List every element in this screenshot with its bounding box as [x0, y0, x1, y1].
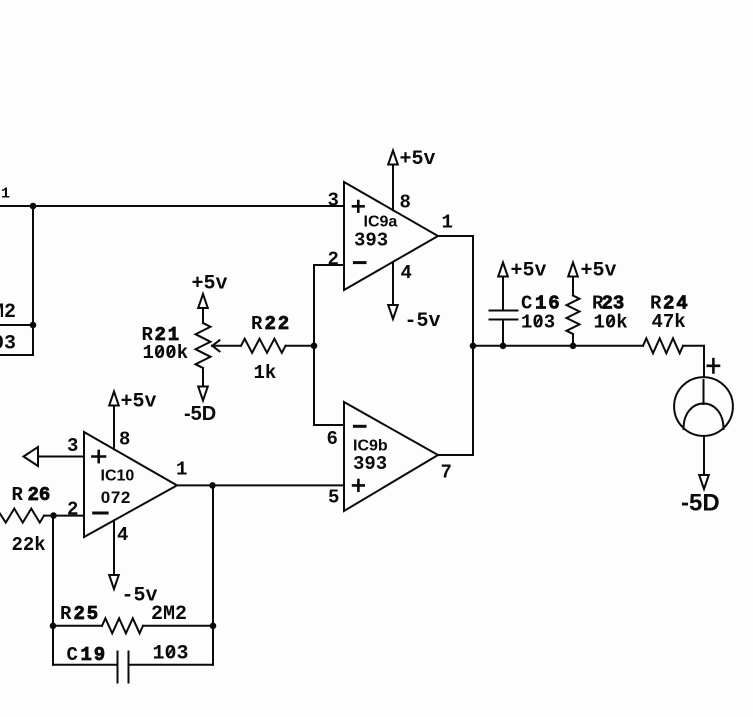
svg-text:-5v: -5v — [405, 310, 441, 333]
svg-text:22k: 22k — [12, 534, 46, 556]
svg-text:+5v: +5v — [581, 260, 617, 283]
svg-text:2M2: 2M2 — [0, 301, 16, 324]
svg-text:47k: 47k — [652, 311, 686, 333]
svg-text:+5v: +5v — [121, 391, 157, 414]
svg-text:393: 393 — [353, 453, 387, 475]
svg-text:IC10: IC10 — [101, 468, 135, 485]
svg-text:4: 4 — [401, 262, 412, 284]
svg-text:393: 393 — [354, 230, 388, 252]
svg-text:+5v: +5v — [511, 260, 547, 283]
svg-text:8: 8 — [119, 429, 130, 451]
svg-text:6: 6 — [327, 428, 338, 450]
svg-text:2: 2 — [328, 249, 339, 271]
svg-text:072: 072 — [101, 488, 131, 507]
svg-text:-5D: -5D — [184, 403, 216, 425]
svg-text:103: 103 — [153, 643, 189, 666]
svg-text:2M2: 2M2 — [151, 603, 187, 626]
svg-text:IC9a: IC9a — [364, 214, 398, 231]
svg-text:103: 103 — [0, 333, 16, 356]
svg-text:100k: 100k — [143, 342, 189, 364]
svg-text:1: 1 — [176, 459, 187, 481]
svg-text:1: 1 — [442, 212, 453, 234]
svg-text:5: 5 — [328, 487, 339, 509]
svg-text:1: 1 — [1, 186, 10, 203]
svg-text:+5v: +5v — [400, 148, 436, 171]
svg-text:2: 2 — [67, 499, 78, 521]
svg-text:R25: R25 — [60, 603, 100, 625]
svg-text:3: 3 — [67, 435, 78, 457]
svg-text:C19: C19 — [67, 644, 107, 666]
svg-text:1k: 1k — [254, 362, 277, 384]
svg-text:8: 8 — [400, 192, 411, 214]
svg-text:+5v: +5v — [192, 273, 228, 296]
svg-text:R26: R26 — [12, 484, 51, 506]
svg-text:3: 3 — [328, 190, 339, 212]
svg-text:7: 7 — [441, 462, 452, 484]
svg-text:IC9b: IC9b — [353, 438, 388, 455]
svg-text:-5D: -5D — [681, 490, 720, 517]
svg-text:R22: R22 — [251, 313, 291, 335]
svg-text:4: 4 — [117, 524, 128, 546]
